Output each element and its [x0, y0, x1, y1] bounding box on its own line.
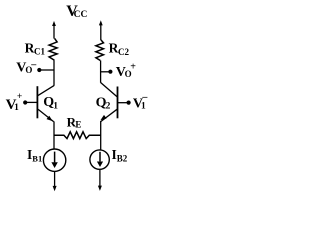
svg-text:–: – [30, 59, 37, 70]
wire left base lead [25, 101, 37, 103]
power VCC arrow right [99, 20, 103, 40]
wire right collector vertical [100, 61, 102, 83]
node Vo+ dot [108, 70, 112, 74]
transistor Q1 [37, 86, 54, 122]
label IB1 [27, 147, 42, 163]
node Vo- dot [37, 68, 41, 72]
current source IB2 [90, 150, 109, 169]
svg-text:+: + [17, 92, 22, 102]
label Vo- [16, 59, 37, 75]
svg-text:2: 2 [106, 101, 111, 111]
svg-text:–: – [141, 92, 148, 103]
svg-text:B2: B2 [117, 153, 128, 163]
label RC2 [109, 41, 130, 57]
label Q1 [43, 95, 58, 111]
label RC1 [25, 40, 46, 56]
resistor RC1 [49, 38, 57, 60]
wire right emitter vertical [100, 121, 102, 150]
svg-text:+: + [130, 62, 136, 73]
svg-text:1: 1 [14, 103, 19, 113]
wire left emitter vertical [53, 121, 55, 149]
svg-text:C2: C2 [118, 47, 129, 57]
label IB2 [112, 147, 128, 163]
svg-text:1: 1 [141, 102, 146, 112]
wire left collector vertical [53, 60, 55, 86]
svg-text:1: 1 [53, 101, 58, 111]
wire to negative supply left [53, 172, 57, 192]
label V1- input right [133, 92, 149, 112]
label Vo+ [116, 62, 136, 80]
transistor Q2 [100, 83, 117, 122]
wire right output tap [101, 71, 111, 73]
wire right base lead [118, 102, 129, 104]
power VCC arrow left [52, 21, 56, 39]
label RE [67, 114, 82, 129]
label Q2 [96, 95, 111, 111]
svg-text:C1: C1 [34, 47, 45, 57]
node V1- dot [127, 101, 131, 105]
resistor RE [54, 132, 101, 139]
wire left output tap [39, 69, 54, 71]
label V1+ input left [6, 92, 23, 113]
label VCC [66, 3, 87, 20]
node V1+ dot [23, 100, 27, 104]
svg-text:E: E [75, 119, 81, 129]
wire to negative supply right [98, 170, 102, 191]
current source IB1 [43, 149, 65, 171]
svg-text:B1: B1 [32, 153, 42, 163]
resistor RC2 [96, 40, 104, 61]
svg-text:CC: CC [74, 10, 88, 20]
